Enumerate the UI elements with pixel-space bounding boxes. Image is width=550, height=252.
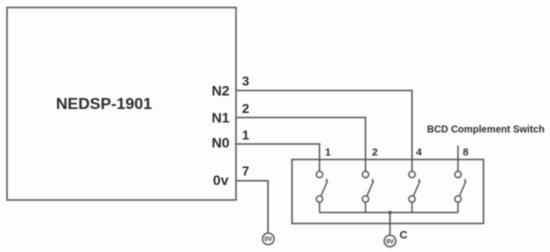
switch S3 (bit 4) (409, 171, 420, 212)
svg-text:2: 2 (242, 101, 249, 116)
wire bus to common ground (389, 213, 391, 236)
wire pin3 N2 to switch 4 (236, 91, 412, 172)
wire pin1 N0 to switch 1 (236, 144, 320, 172)
svg-text:N2: N2 (212, 82, 230, 98)
svg-text:8: 8 (463, 147, 469, 159)
junction node (388, 211, 392, 215)
switch box outline (292, 160, 484, 224)
IC U1 NEDSP-1901 box (7, 8, 236, 201)
svg-text:0v: 0v (213, 172, 229, 188)
wire pin2 N1 to switch 2 (236, 118, 366, 172)
svg-text:7: 7 (242, 164, 249, 179)
ground symbol 0V (common C) (384, 235, 396, 247)
svg-text:0V: 0V (265, 236, 273, 243)
svg-text:NEDSP-1901: NEDSP-1901 (56, 96, 152, 113)
svg-text:1: 1 (325, 147, 331, 159)
switch S1 (bit 1) (316, 171, 327, 212)
svg-text:N1: N1 (212, 110, 230, 126)
svg-text:1: 1 (242, 128, 249, 143)
switch S2 (bit 2) (362, 171, 373, 212)
svg-text:BCD Complement Switch: BCD Complement Switch (427, 124, 545, 135)
svg-text:3: 3 (242, 74, 249, 89)
svg-text:2: 2 (372, 147, 378, 159)
svg-text:4: 4 (416, 147, 422, 159)
svg-text:N0: N0 (212, 134, 230, 150)
svg-text:C: C (400, 230, 408, 242)
common bus wire (320, 212, 459, 214)
switch S4 (bit 8) (455, 171, 466, 212)
ground symbol 0V (pin7) (263, 233, 275, 245)
wire stub switch 8 (457, 146, 459, 172)
svg-text:0V: 0V (386, 238, 394, 245)
wire pin7 0v to ground (236, 181, 268, 234)
